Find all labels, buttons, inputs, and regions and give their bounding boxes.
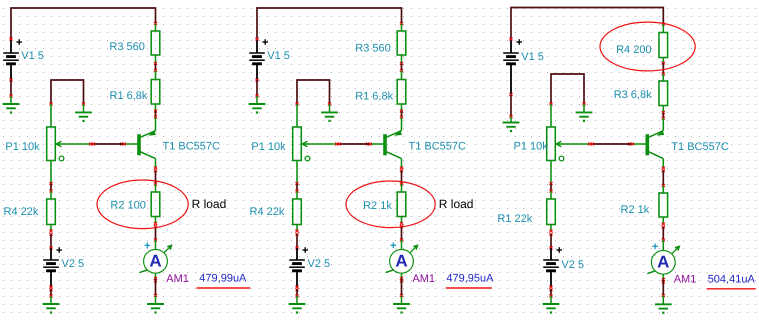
- battery V1 (circuit 1): [3, 39, 22, 64]
- R upper 1 pin top (circuit 1): [155, 24, 157, 32]
- P1 pin top (circuit 3): [550, 104, 552, 127]
- R upper 2 pin top (circuit 3): [662, 74, 664, 81]
- junction R2 bottom 2 (circuit 1): [154, 225, 157, 228]
- wire collector to R2 (circuit 1): [155, 171, 157, 185]
- junction R lower bottom (circuit 3): [549, 230, 552, 233]
- junction emitter A (circuit 3): [662, 111, 665, 114]
- svg-text:AM1: AM1: [412, 273, 435, 285]
- ground stub 1 (circuit 2): [256, 96, 258, 104]
- ammeter pin bottom (circuit 1): [155, 273, 157, 279]
- R2 pin bottom (circuit 2): [401, 217, 403, 224]
- junction V1 top (circuit 2): [255, 38, 258, 41]
- R upper 2 pin top (circuit 2): [401, 71, 403, 80]
- R2 pin top (circuit 3): [662, 186, 664, 194]
- svg-text:A: A: [395, 251, 407, 270]
- svg-text:R load: R load: [439, 197, 474, 211]
- svg-text:R2 1k: R2 1k: [363, 200, 392, 212]
- junction ammeter - b (circuit 2): [400, 279, 403, 282]
- junction wiper b (circuit 2): [338, 143, 341, 146]
- wire P1 to R lower (circuit 3): [550, 184, 552, 192]
- wire to emitter (circuit 1): [155, 111, 157, 117]
- junction loop right (circuit 3): [582, 103, 585, 106]
- svg-text:V1 5: V1 5: [521, 51, 544, 63]
- battery V1 pin top (circuit 3): [510, 39, 512, 53]
- P1 pin top (circuit 1): [50, 104, 52, 127]
- wire between resistors (circuit 3): [662, 63, 664, 74]
- battery V1 pin top (circuit 1): [10, 39, 12, 53]
- wire V1+ to resistor chain (circuit 3): [511, 8, 663, 40]
- junction emitter B (circuit 3): [662, 117, 665, 120]
- T1 emitter lead (circuit 2): [401, 117, 403, 131]
- svg-text:T1 BC557C: T1 BC557C: [163, 141, 221, 153]
- wire between resistors (circuit 2): [401, 64, 403, 71]
- P1 pin bottom (circuit 2): [296, 161, 298, 184]
- svg-text:R1 22k: R1 22k: [497, 213, 532, 225]
- wire V1+ to resistor chain (circuit 2): [257, 8, 402, 39]
- svg-text:P1 10k: P1 10k: [514, 140, 549, 152]
- junction collector (circuit 3): [662, 167, 665, 170]
- R upper 2 pin bottom (circuit 1): [155, 104, 157, 111]
- T1 collector lead (circuit 2): [401, 159, 403, 168]
- wire V1+ to resistor chain (circuit 1): [11, 8, 156, 39]
- potentiometer P1 (circuit 3): [547, 127, 591, 161]
- junction ground 4 (circuit 3): [662, 294, 665, 297]
- junction collector (circuit 2): [400, 167, 403, 170]
- junction base b (circuit 3): [631, 143, 634, 146]
- resistor R3 (circuit 3): [659, 81, 668, 106]
- junction ammeter + (circuit 1): [154, 239, 157, 242]
- R2 pin top (circuit 2): [401, 184, 403, 192]
- junction ground 1 (circuit 3): [509, 115, 512, 118]
- annotation underline (circuit 3): [707, 288, 756, 290]
- ground 1 (circuit 1): [3, 104, 20, 114]
- T1 collector lead (circuit 3): [662, 159, 664, 168]
- wire P1 to R lower (circuit 1): [50, 184, 52, 192]
- svg-text:A: A: [149, 251, 161, 270]
- resistor R1 (circuit 1): [151, 80, 160, 105]
- junction ground 1 (circuit 2): [255, 95, 258, 98]
- wire to emitter (circuit 2): [401, 111, 403, 117]
- junction loop left (circuit 3): [549, 103, 552, 106]
- battery V2 (circuit 1): [43, 247, 62, 271]
- wire V2- to ground (circuit 3): [550, 289, 552, 296]
- svg-text:479,99uA: 479,99uA: [199, 272, 247, 284]
- ground 4 (circuit 2): [393, 304, 410, 314]
- resistor R2 (circuit 3): [659, 193, 668, 217]
- svg-text:504,41uA: 504,41uA: [708, 273, 756, 285]
- junction loop left (circuit 2): [295, 103, 298, 106]
- junction V1 bottom (circuit 2): [255, 79, 258, 82]
- svg-text:V2 5: V2 5: [561, 259, 584, 271]
- wire wiper to base (circuit 2): [338, 143, 369, 145]
- ammeter pin top (circuit 2): [401, 240, 403, 249]
- ground 2 (circuit 3): [576, 112, 593, 122]
- junction loop right (circuit 2): [328, 103, 331, 106]
- wire collector to R2 (circuit 2): [401, 171, 403, 185]
- junction P1 bottom (circuit 1): [49, 182, 52, 185]
- junction ammeter - (circuit 3): [662, 278, 665, 281]
- ammeter AM1 (circuit 3): [647, 244, 679, 275]
- junction wiper (circuit 2): [335, 143, 338, 146]
- wire collector to R2 (circuit 3): [662, 171, 664, 186]
- transistor T1 (circuit 2): [385, 130, 402, 159]
- svg-text:R2 1k: R2 1k: [621, 204, 650, 216]
- ground 4 (circuit 3): [655, 304, 672, 314]
- svg-text:A: A: [657, 252, 669, 271]
- junction ammeter - b (circuit 1): [154, 279, 157, 282]
- R upper 1 pin bottom (circuit 1): [155, 55, 157, 64]
- junction collector (circuit 1): [154, 167, 157, 170]
- ground 2 (circuit 1): [75, 112, 92, 122]
- R2 pin bottom (circuit 1): [155, 217, 157, 224]
- junction base b (circuit 2): [369, 143, 372, 146]
- wire to V2 (circuit 1): [50, 234, 52, 248]
- svg-text:R3 6,8k: R3 6,8k: [614, 89, 652, 101]
- ammeter AM1 (circuit 1): [140, 243, 172, 274]
- ground stub 1 (circuit 3): [510, 117, 512, 123]
- junction R lower bottom 2 (circuit 3): [549, 233, 552, 236]
- battery V2 pin bottom (circuit 2): [296, 271, 298, 287]
- wire V1- to ground (circuit 2): [256, 80, 258, 96]
- R lower pin bottom (circuit 2): [296, 225, 298, 232]
- R upper 2 pin bottom (circuit 3): [662, 106, 664, 113]
- junction between resistors B (circuit 2): [400, 69, 403, 72]
- svg-text:T1 BC557C: T1 BC557C: [409, 141, 467, 153]
- junction wiper (circuit 3): [588, 143, 591, 146]
- wire P1 top to ground (circuit 1): [51, 80, 84, 104]
- junction emitter A (circuit 2): [400, 110, 403, 113]
- junction between resistors B (circuit 3): [662, 73, 665, 76]
- resistor R4 (circuit 3): [659, 33, 668, 58]
- junction R lower top (circuit 3): [549, 190, 552, 193]
- svg-text:AM1: AM1: [166, 273, 189, 285]
- junction V1 top (circuit 3): [509, 38, 512, 41]
- resistor R2 (circuit 2): [397, 192, 406, 217]
- junction ammeter - b (circuit 3): [662, 280, 665, 283]
- battery V2 pin bottom (circuit 1): [50, 271, 52, 287]
- junction P1 bottom (circuit 3): [549, 182, 552, 185]
- ground 4 (circuit 1): [147, 304, 164, 314]
- junction V2 top (circuit 1): [49, 247, 52, 250]
- junction V2 bottom (circuit 2): [295, 286, 298, 289]
- junction emitter B (circuit 1): [154, 116, 157, 119]
- wire ammeter to ground (circuit 3): [662, 279, 664, 295]
- battery V2 pin top (circuit 2): [296, 248, 298, 260]
- junction base (circuit 2): [366, 143, 369, 146]
- resistor R1 (circuit 2): [397, 80, 406, 105]
- svg-text:R2 100: R2 100: [110, 200, 145, 212]
- junction ground 1 (circuit 1): [9, 95, 12, 98]
- junction V2 bottom 2 (circuit 1): [49, 288, 52, 291]
- ground stub 2 (circuit 1): [83, 104, 85, 112]
- junction R lower bottom 2 (circuit 2): [295, 233, 298, 236]
- ground stub 3 (circuit 1): [50, 296, 52, 304]
- wire V2- to ground (circuit 2): [296, 289, 298, 296]
- junction between resistors A (circuit 2): [400, 62, 403, 65]
- junction ammeter - (circuit 2): [400, 277, 403, 280]
- junction ground 3 (circuit 2): [295, 295, 298, 298]
- junction V1 bottom (circuit 3): [509, 93, 512, 96]
- junction emitter B (circuit 2): [400, 116, 403, 119]
- ground stub 2 (circuit 3): [583, 104, 585, 112]
- junction R lower top (circuit 2): [295, 190, 298, 193]
- annotation underline (circuit 2): [446, 287, 492, 289]
- junction R lower bottom (circuit 2): [295, 230, 298, 233]
- svg-text:R load: R load: [192, 197, 227, 211]
- wire R2 to ammeter (circuit 1): [155, 227, 157, 241]
- svg-text:V1 5: V1 5: [21, 50, 44, 62]
- wire wiper to base (circuit 3): [591, 143, 631, 145]
- junction between resistors B (circuit 1): [154, 69, 157, 72]
- transistor T1 (circuit 3): [647, 130, 664, 159]
- junction V2 bottom 2 (circuit 2): [295, 288, 298, 291]
- R lower pin top (circuit 3): [550, 191, 552, 199]
- battery V1 pin top (circuit 2): [256, 39, 258, 53]
- svg-text:V2 5: V2 5: [308, 258, 331, 270]
- resistor R3 (circuit 2): [397, 31, 406, 55]
- wire P1 to R lower (circuit 2): [296, 184, 298, 192]
- resistor R3 (circuit 1): [151, 31, 160, 55]
- resistor R4 (circuit 1): [47, 199, 56, 225]
- ammeter AM1 (circuit 2): [386, 243, 418, 274]
- svg-text:R3 560: R3 560: [355, 43, 390, 55]
- R upper 1 pin bottom (circuit 2): [401, 55, 403, 64]
- junction ground 3 (circuit 1): [49, 295, 52, 298]
- R upper 2 pin bottom (circuit 2): [401, 104, 403, 111]
- junction wiper (circuit 1): [89, 143, 92, 146]
- ground stub 2 (circuit 2): [329, 104, 331, 112]
- junction R2 top (circuit 3): [662, 184, 665, 187]
- svg-text:P1 10k: P1 10k: [5, 141, 40, 153]
- junction collector 2 (circuit 1): [154, 169, 157, 172]
- T1 collector lead (circuit 1): [155, 159, 157, 168]
- svg-text:R1 6,8k: R1 6,8k: [110, 90, 148, 102]
- ammeter pin top (circuit 1): [155, 240, 157, 249]
- svg-text:R4 22k: R4 22k: [250, 206, 285, 218]
- wire P1 top to ground (circuit 3): [551, 74, 584, 104]
- wire to V2 (circuit 3): [550, 234, 552, 248]
- annotation ellipse (circuit 1): [97, 180, 188, 229]
- junction ammeter + (circuit 2): [400, 239, 403, 242]
- svg-text:R1 6,8k: R1 6,8k: [355, 90, 393, 102]
- annotation ellipse (circuit 3): [600, 22, 695, 71]
- annotation underline (circuit 1): [197, 287, 251, 289]
- battery V2 pin bottom (circuit 3): [550, 271, 552, 287]
- battery V1 (circuit 3): [503, 39, 522, 64]
- ground 2 (circuit 2): [321, 112, 338, 122]
- junction between resistors A (circuit 1): [154, 62, 157, 65]
- junction wiper b (circuit 3): [591, 143, 594, 146]
- svg-text:479,95uA: 479,95uA: [446, 272, 494, 284]
- T1 base stub (circuit 1): [123, 143, 139, 145]
- ground stub 4 (circuit 2): [401, 296, 403, 305]
- svg-text:R4 200: R4 200: [616, 44, 651, 56]
- R upper 2 pin top (circuit 1): [155, 71, 157, 80]
- wire V1- to ground (circuit 3): [510, 95, 512, 117]
- junction between resistors A (circuit 3): [662, 62, 665, 65]
- junction ammeter + (circuit 3): [662, 239, 665, 242]
- ground stub 4 (circuit 1): [155, 296, 157, 305]
- junction base (circuit 3): [628, 143, 631, 146]
- wire between resistors (circuit 1): [155, 64, 157, 71]
- T1 base stub (circuit 2): [369, 143, 385, 145]
- wire ammeter to ground (circuit 1): [155, 278, 157, 295]
- potentiometer P1 (circuit 2): [293, 127, 338, 161]
- junction V1 top (circuit 1): [9, 38, 12, 41]
- ground stub 3 (circuit 2): [296, 296, 298, 304]
- junction collector 2 (circuit 3): [662, 169, 665, 172]
- ground 3 (circuit 3): [543, 304, 560, 314]
- R lower pin top (circuit 1): [50, 191, 52, 199]
- junction wiper b (circuit 1): [92, 143, 95, 146]
- ammeter pin bottom (circuit 2): [401, 273, 403, 279]
- R2 pin bottom (circuit 3): [662, 217, 664, 224]
- battery V1 (circuit 2): [249, 39, 268, 64]
- battery V1 pin bottom (circuit 1): [10, 64, 12, 81]
- ground stub 1 (circuit 1): [10, 96, 12, 104]
- junction R2 bottom 2 (circuit 3): [662, 226, 665, 229]
- svg-text:V1 5: V1 5: [267, 50, 290, 62]
- junction P1 bottom (circuit 2): [295, 182, 298, 185]
- svg-text:R4 22k: R4 22k: [4, 206, 39, 218]
- wire V1- to ground (circuit 1): [10, 80, 12, 96]
- ground stub 4 (circuit 3): [662, 296, 664, 305]
- junction V2 top (circuit 2): [295, 247, 298, 250]
- annotation ellipse (circuit 2): [346, 181, 435, 228]
- junction R2 bottom 2 (circuit 2): [400, 225, 403, 228]
- battery V2 pin top (circuit 1): [50, 248, 52, 260]
- resistor R1 (circuit 3): [547, 199, 556, 225]
- ammeter pin bottom (circuit 3): [662, 274, 664, 280]
- junction loop left (circuit 1): [49, 103, 52, 106]
- junction V2 bottom (circuit 3): [549, 286, 552, 289]
- wire wiper to base (circuit 1): [92, 143, 123, 145]
- R upper 1 pin top (circuit 2): [401, 24, 403, 32]
- ground 3 (circuit 1): [43, 304, 60, 314]
- ground 1 (circuit 3): [503, 123, 520, 133]
- T1 emitter lead (circuit 3): [662, 118, 664, 131]
- transistor T1 (circuit 1): [139, 130, 156, 159]
- wire P1 top to ground (circuit 2): [297, 80, 330, 104]
- ground stub 3 (circuit 3): [550, 296, 552, 304]
- P1 pin bottom (circuit 1): [50, 161, 52, 184]
- junction R upper 1 top (circuit 3): [662, 23, 665, 26]
- potentiometer P1 (circuit 1): [47, 127, 92, 161]
- junction ground 4 (circuit 2): [400, 294, 403, 297]
- junction base (circuit 1): [120, 143, 123, 146]
- junction ground 3 (circuit 3): [549, 295, 552, 298]
- junction V2 bottom (circuit 1): [49, 286, 52, 289]
- svg-text:P1 10k: P1 10k: [251, 141, 286, 153]
- wire ammeter to ground (circuit 2): [401, 278, 403, 295]
- resistor R4 (circuit 2): [293, 199, 302, 225]
- wire R2 to ammeter (circuit 2): [401, 227, 403, 241]
- junction V2 bottom 2 (circuit 3): [549, 288, 552, 291]
- ground 1 (circuit 2): [249, 104, 266, 114]
- junction R2 top (circuit 2): [400, 183, 403, 186]
- junction R2 bottom (circuit 3): [662, 223, 665, 226]
- junction base b (circuit 1): [123, 143, 126, 146]
- junction R lower top (circuit 1): [49, 190, 52, 193]
- T1 base stub (circuit 3): [631, 143, 647, 145]
- junction collector 2 (circuit 2): [400, 169, 403, 172]
- P1 pin bottom (circuit 3): [550, 161, 552, 184]
- junction V1 bottom (circuit 1): [9, 79, 12, 82]
- resistor R2 (circuit 1): [151, 192, 160, 217]
- junction V2 top (circuit 3): [549, 247, 552, 250]
- wire R2 to ammeter (circuit 3): [662, 227, 664, 240]
- junction ammeter - (circuit 1): [154, 277, 157, 280]
- junction R lower bottom 2 (circuit 1): [49, 233, 52, 236]
- wire to emitter (circuit 3): [662, 113, 664, 119]
- svg-text:V2 5: V2 5: [62, 258, 85, 270]
- junction emitter A (circuit 1): [154, 110, 157, 113]
- junction loop right (circuit 1): [82, 103, 85, 106]
- junction R upper 1 top (circuit 2): [400, 22, 403, 25]
- R lower pin bottom (circuit 1): [50, 225, 52, 232]
- R lower pin bottom (circuit 3): [550, 225, 552, 232]
- junction R2 bottom (circuit 1): [154, 222, 157, 225]
- R upper 1 pin bottom (circuit 3): [662, 58, 664, 64]
- ground 3 (circuit 2): [289, 304, 306, 314]
- battery V2 (circuit 2): [289, 247, 308, 271]
- junction ground 4 (circuit 1): [154, 294, 157, 297]
- battery V1 pin bottom (circuit 2): [256, 64, 258, 81]
- wire V2- to ground (circuit 1): [50, 289, 52, 296]
- battery V2 pin top (circuit 3): [550, 248, 552, 260]
- T1 emitter lead (circuit 1): [155, 117, 157, 131]
- junction R lower bottom (circuit 1): [49, 230, 52, 233]
- wire to V2 (circuit 2): [296, 234, 298, 248]
- battery V2 (circuit 3): [543, 247, 562, 271]
- svg-text:R3 560: R3 560: [109, 41, 144, 53]
- P1 pin top (circuit 2): [296, 104, 298, 127]
- battery V1 pin bottom (circuit 3): [510, 64, 512, 95]
- ammeter pin top (circuit 3): [662, 240, 664, 250]
- R upper 1 pin top (circuit 3): [662, 24, 664, 33]
- R lower pin top (circuit 2): [296, 191, 298, 199]
- svg-text:T1 BC557C: T1 BC557C: [671, 141, 729, 153]
- junction R2 top (circuit 1): [154, 183, 157, 186]
- junction R2 bottom (circuit 2): [400, 222, 403, 225]
- svg-text:AM1: AM1: [674, 274, 697, 286]
- R2 pin top (circuit 1): [155, 184, 157, 192]
- junction R upper 1 top (circuit 1): [154, 22, 157, 25]
